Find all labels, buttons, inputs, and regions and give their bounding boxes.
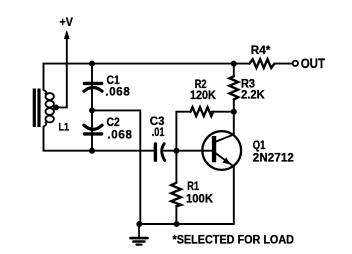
wire: R1 bottom lead: [175, 206, 177, 224]
svg-text:C2: C2: [107, 117, 120, 129]
svg-text:+V: +V: [60, 17, 74, 29]
wire: R4 left lead: [234, 63, 250, 65]
resistor R1: [171, 183, 181, 207]
wire: R3 top lead: [233, 64, 235, 77]
transformer core bar 1: [33, 89, 36, 128]
svg-text:R2: R2: [195, 79, 207, 91]
svg-text:120K: 120K: [190, 90, 216, 102]
wire: R3 bottom lead: [233, 100, 235, 112]
svg-text:L1: L1: [59, 122, 70, 134]
junction dot: base node: [173, 148, 179, 154]
wire: C3 to transistor base: [164, 150, 213, 152]
junction dot: ground node: [136, 221, 142, 227]
ground symbol: [131, 224, 148, 245]
junction dot: C1/C2 node: [89, 107, 95, 113]
svg-text:R1: R1: [187, 181, 199, 193]
svg-text:2N2712: 2N2712: [253, 153, 294, 165]
svg-text:.068: .068: [107, 130, 132, 142]
wire: R4 right lead to output: [275, 63, 293, 65]
resistor R3: [229, 76, 238, 99]
svg-text:*SELECTED FOR LOAD: *SELECTED FOR LOAD: [173, 232, 295, 246]
inductor L1 winding: [44, 90, 54, 127]
svg-text:100K: 100K: [186, 194, 214, 206]
junction dot: top rail / C1: [89, 61, 95, 67]
wire: emitter vertical: [233, 167, 235, 225]
svg-text:R4*: R4*: [251, 45, 271, 57]
junction dot: R3 / R2 / collector: [231, 109, 237, 115]
wire: C1-C2 branch vertical: [91, 64, 93, 151]
capacitor C3: [155, 144, 164, 161]
junction dot: coil tap: [53, 105, 59, 111]
wire: collector vertical: [233, 112, 235, 135]
junction dot: C2 bottom: [89, 148, 95, 154]
svg-text:.068: .068: [105, 86, 130, 98]
junction dot: top rail / R3 / R4: [231, 61, 237, 67]
wire: R2 horizontal right segment: [212, 111, 234, 113]
wire: top rail with left corner: [44, 64, 234, 90]
wire: C1/C2 node to ground rail: [92, 110, 140, 224]
capacitor C2: [84, 125, 102, 134]
wire: bottom-left rail and base line to C3: [44, 127, 156, 151]
wire: R2 left corner down mid vertical: [176, 112, 190, 183]
transformer core bar 2: [37, 89, 40, 128]
svg-text:OUT: OUT: [301, 55, 326, 71]
resistor R2: [191, 107, 214, 116]
output terminal circle: [293, 61, 298, 66]
junction dot: R1 bottom: [174, 221, 180, 227]
capacitor C1: [84, 83, 102, 91]
resistor R4: [249, 59, 274, 68]
power arrowhead +V: [64, 30, 70, 39]
svg-text:.01: .01: [152, 127, 165, 139]
svg-text:2.2K: 2.2K: [241, 89, 265, 101]
svg-text:Q1: Q1: [253, 140, 266, 152]
transistor Q1: [202, 131, 241, 170]
wire: +V lead down to coil tap: [57, 39, 67, 108]
wire: bottom rail: [139, 223, 234, 225]
